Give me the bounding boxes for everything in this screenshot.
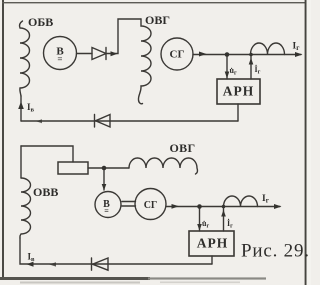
svg-text:АРН: АРН [197,236,229,251]
wire: SG output bus (bottom circuit) [166,206,280,208]
wire: tap down to exciter B (bottom circuit) [103,168,105,190]
generator SG (top circuit) [161,38,193,70]
diode VD1 [92,48,106,60]
svg-text:ОВВ: ОВВ [33,185,58,199]
svg-text:=: = [57,54,62,64]
wire: B to diode VD1 [77,53,93,55]
winding OVV (exciter field, top circuit) [20,21,30,96]
arrowhead Ig bus end (bottom circuit) [274,204,282,209]
svg-text:АРН: АРН [223,84,255,99]
arrowhead Ig up (top circuit) [249,58,254,65]
regulator ARN box (top circuit) [217,79,260,104]
svg-text:СГ: СГ [144,200,158,211]
svg-text:Iг: Iг [293,42,300,53]
flow tick on return bus (bottom circuit) [49,262,56,266]
wire: Ug tap to ARN (top circuit) [226,55,228,80]
regulator ARN box (bottom circuit) [189,231,234,256]
diode VD2 (return bus, top circuit) [95,115,111,128]
wire: Ig tap to ARN (bottom circuit) [223,207,225,232]
generator SG (bottom circuit) [135,189,166,220]
wire: Ug tap to ARN (bottom circuit) [199,207,201,232]
wire: ARN output to bottom bus (bottom circuit) [211,256,213,264]
current arrow Iv left (bottom circuit bus) [27,262,34,267]
svg-text:Iг: Iг [262,194,269,205]
exciter machine B (top circuit) [44,37,77,70]
wire: Ig tap to ARN (top circuit) [250,55,252,80]
diode VD3 (return bus, bottom circuit) [92,258,109,270]
wire: coil OVV down to bottom bus (bottom circuit) [20,238,212,264]
current transformer reactor (bottom circuit) [224,196,258,206]
node: Ug junction (top circuit) [225,52,230,57]
flow arrow on SG bus (bottom circuit) [172,204,180,209]
wire: bottom return bus (top circuit) [21,120,238,122]
winding OVG (generator field, top circuit) [138,19,151,104]
flow tick on return bus (top circuit) [36,119,42,123]
flow arrow on SG bus (top circuit) [199,52,207,57]
arrowhead Ug down into ARN (bottom circuit) [197,224,202,231]
arrowhead into exciter B (bottom circuit) [102,184,107,191]
node: Ig junction (bottom circuit) [222,205,226,209]
current transformer reactor (top circuit) [251,43,285,55]
svg-text:ОВГ: ОВГ [170,141,196,155]
shaft coupling B to SG (bottom circuit) [122,202,136,207]
wire: ARN output down (top circuit) [237,104,239,121]
wire: resistor to winding OVG (bottom circuit) [88,167,129,169]
exciter machine B (bottom circuit) [95,192,121,218]
wire: SG output bus (top circuit) [193,54,301,56]
resistor R (bottom circuit) [58,162,88,174]
node: tap to B (bottom circuit) [102,166,107,171]
arrowhead Ig up (bottom circuit) [221,210,226,217]
svg-text:=: = [104,207,109,216]
node: Ug junction (bottom circuit) [197,204,202,209]
arrowhead Ig bus end (top circuit) [295,52,303,57]
flow arrow after diode VD1 (top circuit) [111,51,118,56]
arrowhead Ug down into ARN (top circuit) [225,72,230,79]
node: Ig junction (top circuit) [249,53,253,57]
winding OVV (bottom circuit) [20,178,31,238]
winding OVG (horizontal, bottom circuit) [129,158,198,174]
wire: top bus (bottom circuit) [21,146,73,162]
wire: left leg into winding OVV (bottom circuit) [20,146,22,178]
svg-text:Рис. 29.: Рис. 29. [241,241,310,262]
wire: VD1 up and over to winding OVG (top circuit) [106,19,141,54]
svg-text:ОБВ: ОБВ [28,15,53,29]
current arrow Iv up (top circuit left leg) [18,102,24,110]
svg-text:ОВГ: ОВГ [145,13,170,27]
svg-text:СГ: СГ [170,49,185,61]
wire: coil OVV to bottom bus (top circuit) [20,96,22,121]
